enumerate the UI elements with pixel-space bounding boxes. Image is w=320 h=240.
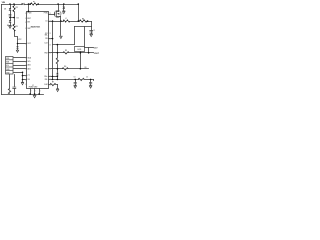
svg-text:VOUT: VOUT — [94, 53, 100, 55]
svg-text:BST: BST — [28, 18, 31, 20]
svg-text:D1: D1 — [4, 9, 6, 11]
svg-text:15: 15 — [49, 13, 51, 15]
svg-text:RS+: RS+ — [44, 76, 47, 78]
svg-text:VIN: VIN — [2, 2, 6, 4]
svg-text:R8: R8 — [85, 67, 87, 69]
svg-text:PGND GND: PGND GND — [29, 87, 38, 89]
svg-text:RS-: RS- — [45, 79, 48, 81]
svg-text:15: 15 — [49, 69, 51, 71]
svg-text:C5: C5 — [74, 77, 76, 79]
svg-text:VDD: VDD — [16, 17, 19, 19]
svg-text:CT: CT — [28, 75, 30, 77]
svg-text:15: 15 — [49, 44, 51, 46]
svg-text:R6: R6 — [64, 66, 66, 68]
svg-text:FB2: FB2 — [44, 52, 47, 54]
svg-text:SUP: SUP — [28, 28, 31, 30]
svg-text:R2: R2 — [16, 7, 18, 9]
svg-text:15: 15 — [49, 21, 51, 23]
svg-text:R7: R7 — [52, 82, 54, 84]
svg-text:15: 15 — [49, 84, 51, 86]
svg-text:15: 15 — [49, 33, 51, 35]
svg-text:15: 15 — [49, 76, 51, 78]
svg-text:R5: R5 — [65, 50, 67, 52]
svg-text:SCL: SCL — [6, 65, 9, 67]
svg-text:MAX17501: MAX17501 — [31, 26, 40, 29]
svg-text:L1: L1 — [65, 18, 67, 20]
svg-text:EP: EP — [32, 85, 34, 87]
svg-text:15: 15 — [49, 53, 51, 55]
svg-text:R1: R1 — [33, 1, 35, 3]
svg-text:SS: SS — [28, 79, 30, 81]
svg-text:D2: D2 — [7, 25, 9, 27]
svg-text:15: 15 — [49, 79, 51, 81]
svg-text:LX2: LX2 — [45, 42, 48, 44]
svg-text:Q1: Q1 — [62, 12, 64, 14]
svg-text:SEL: SEL — [45, 35, 48, 37]
svg-text:SCL: SCL — [28, 61, 31, 63]
svg-text:R3: R3 — [16, 26, 18, 28]
svg-text:C1: C1 — [93, 30, 95, 32]
svg-text:C6: C6 — [86, 77, 88, 79]
svg-text:15: 15 — [49, 38, 51, 40]
